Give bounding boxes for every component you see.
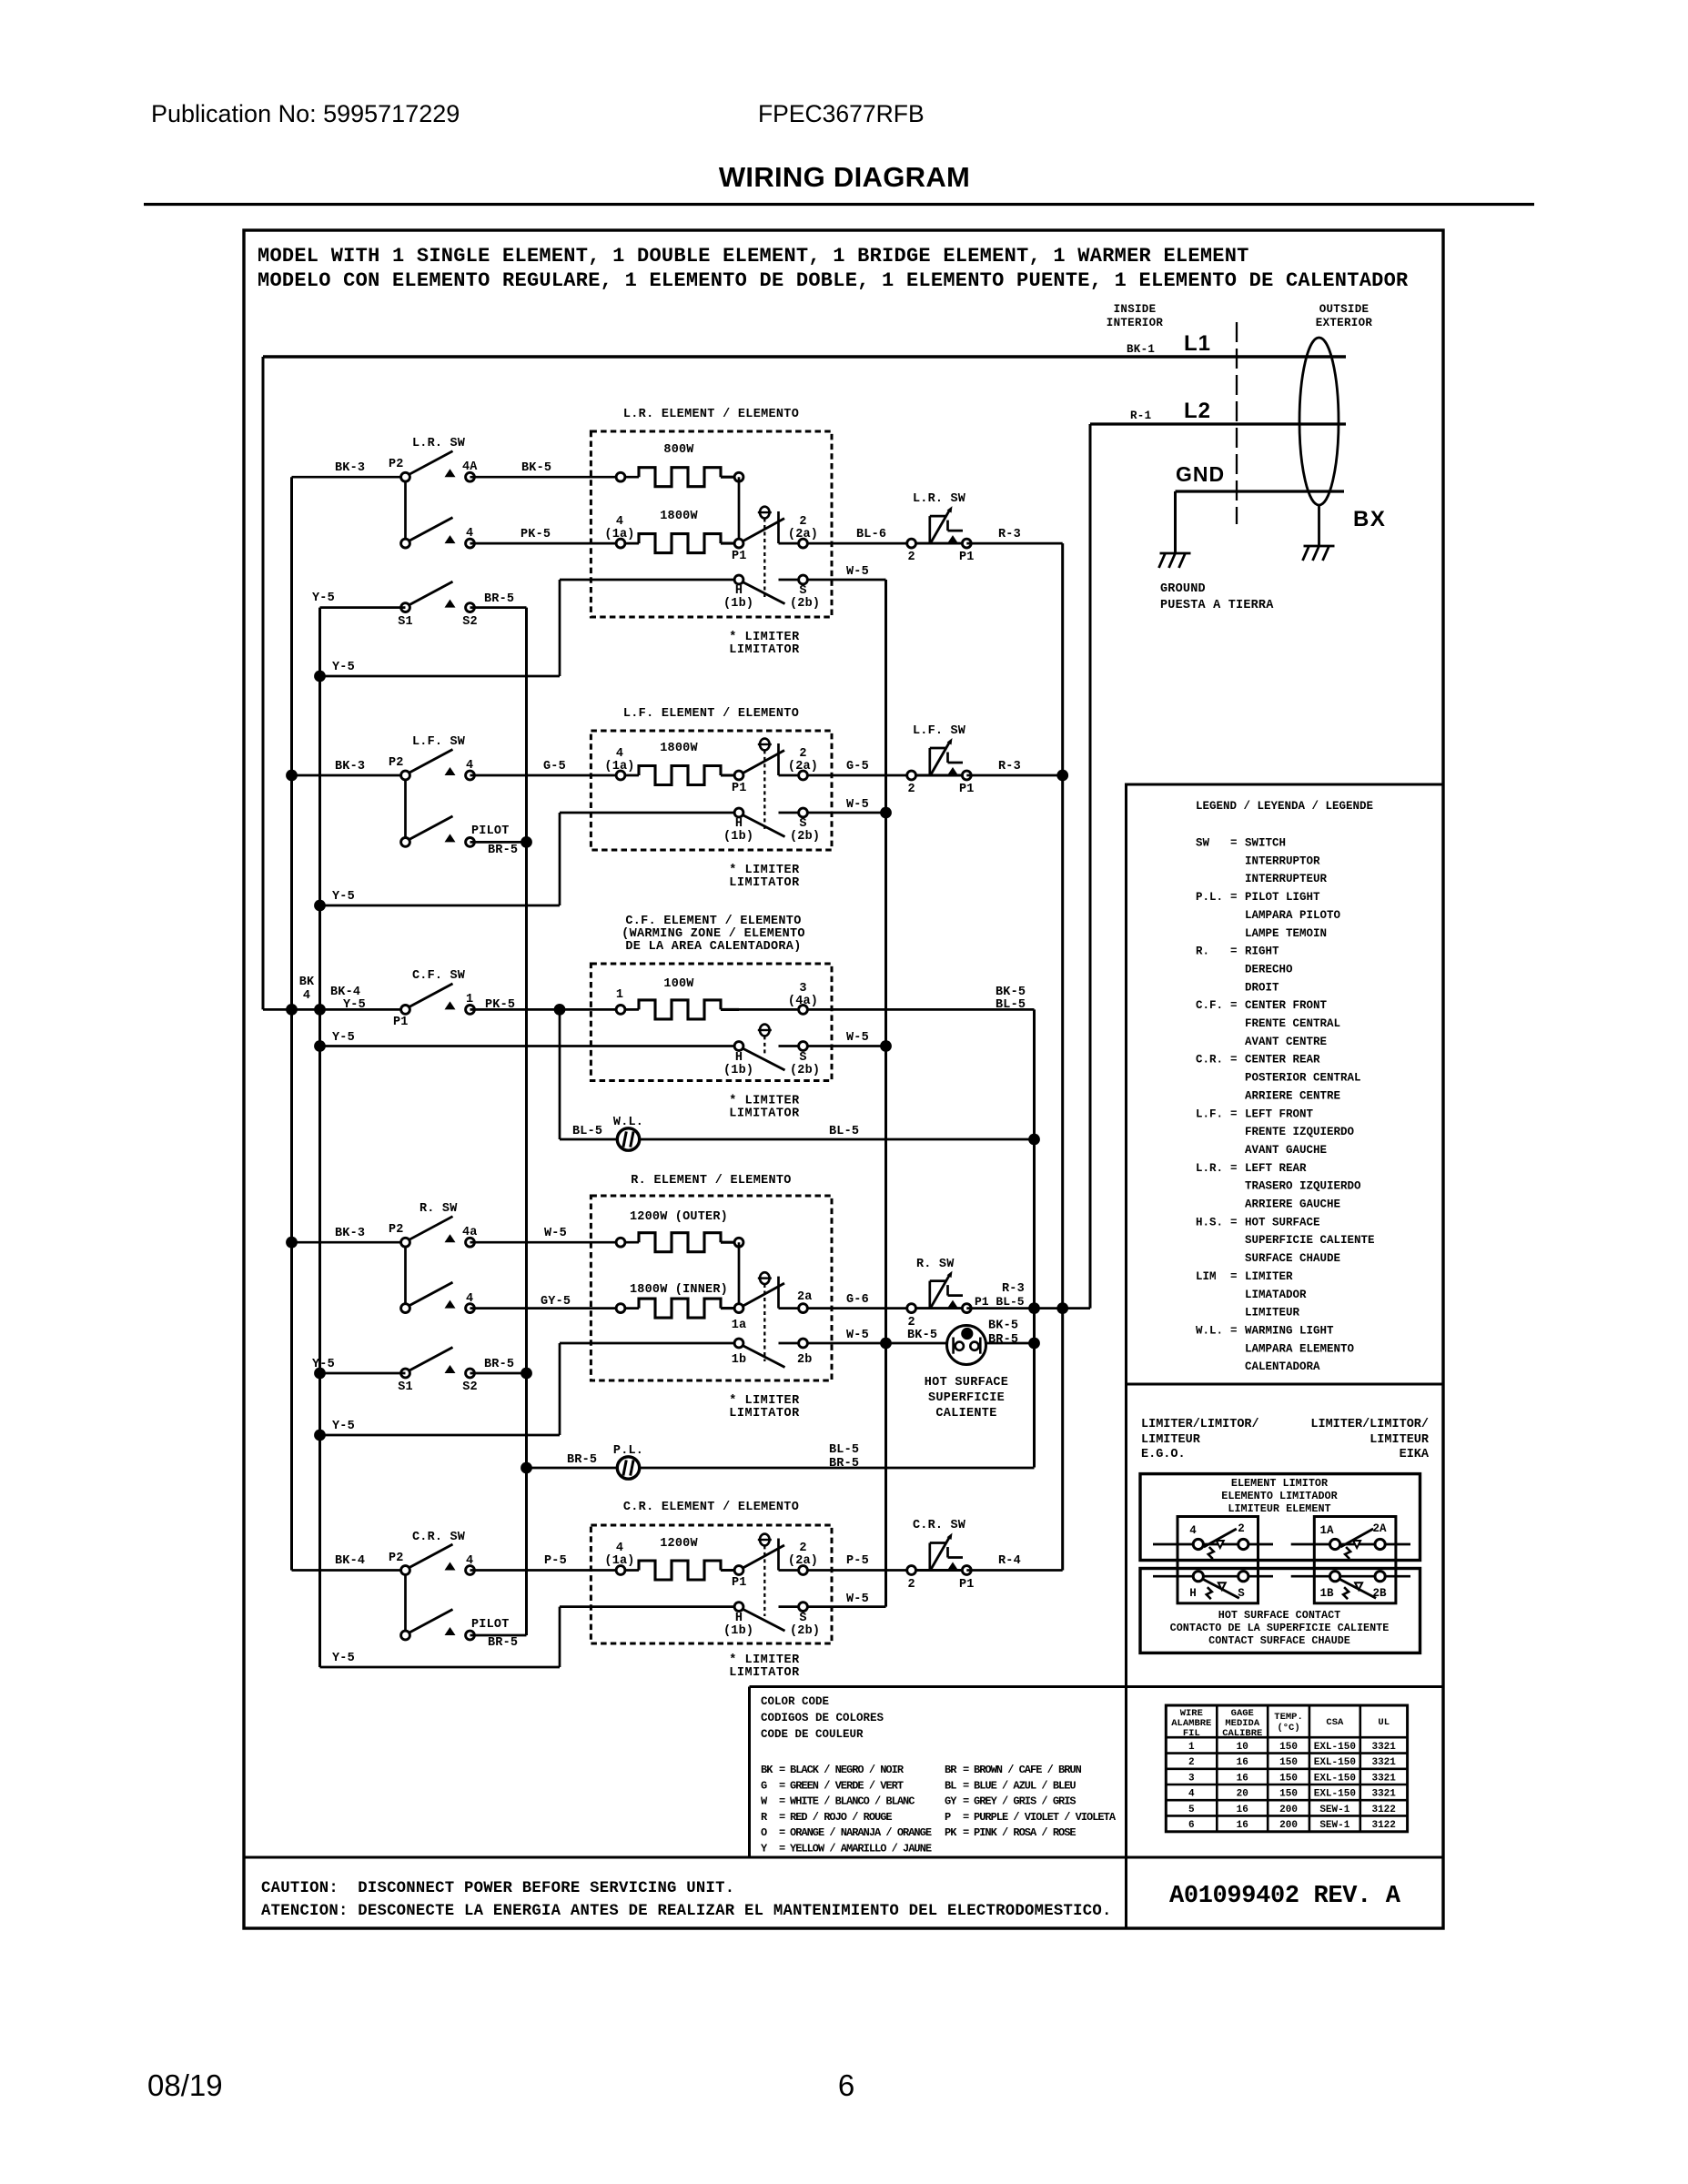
- label L.R. SW: [412, 437, 466, 450]
- terminal H (L.R.): [734, 575, 784, 603]
- label P1 BL-5 (R row): [975, 1295, 1025, 1309]
- svg-text:=: =: [1230, 1107, 1238, 1120]
- svg-text:2A: 2A: [1372, 1522, 1387, 1535]
- wire BK-3/BK-4 vertical bus: [290, 477, 293, 1570]
- wire Y-5 to H (C.F.): [320, 1045, 740, 1047]
- label S (C.R.): [799, 1612, 806, 1625]
- svg-text:L1: L1: [1184, 331, 1211, 356]
- label W-5 (R right): [846, 1329, 869, 1342]
- svg-text:800W: 800W: [663, 443, 694, 457]
- svg-text:100W: 100W: [663, 977, 694, 991]
- label H (1b) L.F.: [723, 817, 753, 844]
- svg-text:WHITE / BLANCO / BLANC: WHITE / BLANCO / BLANC: [790, 1795, 915, 1808]
- svg-text:BL-5: BL-5: [572, 1125, 602, 1138]
- svg-text:P.L.: P.L.: [613, 1444, 643, 1458]
- wire PK-5 (to C.F. element): [470, 1008, 640, 1011]
- terminal P1 (L.F.): [734, 751, 784, 780]
- svg-text:S: S: [799, 1051, 806, 1065]
- svg-text:E.G.O.: E.G.O.: [1141, 1448, 1186, 1461]
- svg-text:LIM: LIM: [1196, 1270, 1217, 1283]
- wire limiter row A left: [1153, 1543, 1273, 1546]
- label W.L.: [613, 1116, 643, 1129]
- svg-text:PK-5: PK-5: [485, 998, 515, 1012]
- svg-text:08/19: 08/19: [147, 2068, 223, 2102]
- svg-text:RED / ROJO / ROUGE: RED / ROJO / ROUGE: [790, 1811, 892, 1824]
- label P1 (L.F. element): [732, 782, 747, 795]
- svg-text:L.R. ELEMENT / ELEMENTO: L.R. ELEMENT / ELEMENTO: [623, 408, 799, 421]
- svg-text:TRASERO IZQUIERDO: TRASERO IZQUIERDO: [1245, 1180, 1361, 1193]
- svg-text:G-6: G-6: [846, 1293, 869, 1307]
- wire BR-5 vertical bus: [525, 608, 528, 1635]
- svg-text:P-5: P-5: [846, 1554, 869, 1568]
- label C.F. SW: [412, 969, 466, 983]
- svg-text:PK-5: PK-5: [521, 528, 551, 541]
- svg-text:Y-5: Y-5: [312, 1358, 335, 1371]
- label 1 (C.F. SW): [466, 993, 473, 1006]
- label PILOT (L.F.): [471, 824, 510, 838]
- label 1a (R): [732, 1319, 747, 1332]
- svg-text:LIMATADOR: LIMATADOR: [1245, 1289, 1307, 1301]
- switch PILOT (L.F.): [401, 816, 475, 846]
- svg-text:* LIMITER: * LIMITER: [729, 1653, 800, 1667]
- svg-text:CENTER REAR: CENTER REAR: [1245, 1054, 1320, 1067]
- resistor 800W (L.R. outer): [639, 468, 739, 487]
- wire PK-5 (to L.R. element): [470, 542, 640, 545]
- svg-text:BROWN / CAFE / BRUN: BROWN / CAFE / BRUN: [974, 1764, 1082, 1776]
- svg-text:SEW-1: SEW-1: [1319, 1820, 1349, 1831]
- svg-text:G: G: [761, 1779, 767, 1792]
- label S (L.F.): [799, 817, 806, 831]
- switch L.R. SW (surface unit, left): [401, 451, 475, 548]
- label 4 (L.R. SW): [466, 527, 473, 541]
- svg-text:1B: 1B: [1319, 1587, 1334, 1600]
- wire G-5 (to L.F. element): [470, 774, 640, 777]
- label GY-5 (R): [541, 1295, 571, 1309]
- label Y-5 (L.R. return): [332, 661, 355, 674]
- svg-text:(WARMING ZONE / ELEMENTO: (WARMING ZONE / ELEMENTO: [622, 927, 805, 941]
- wire limiter row B right: [1291, 1575, 1410, 1578]
- label 4A: [462, 460, 478, 474]
- label BK-5 (R hs left): [907, 1329, 937, 1342]
- terminal P1 (L.R.): [734, 519, 784, 548]
- switch L.F. SW (limiter, right): [907, 738, 972, 780]
- svg-text:=: =: [1230, 891, 1238, 904]
- junction R-3 (R row): [1056, 1302, 1068, 1314]
- node L2: [1184, 399, 1211, 423]
- junction Y-5 (L.F.): [314, 900, 326, 912]
- svg-text:Y-5: Y-5: [332, 1652, 355, 1665]
- service loop ellipse: [1299, 338, 1339, 505]
- terminal S (L.F.): [799, 808, 808, 817]
- label L.F. SW: [412, 735, 466, 749]
- label ELEMENT LIMITOR titles: [1221, 1477, 1338, 1515]
- svg-text:1800W: 1800W: [660, 742, 698, 755]
- element box R: [591, 1196, 832, 1380]
- svg-text:Y-5: Y-5: [312, 591, 335, 605]
- svg-text:BK: BK: [299, 976, 315, 989]
- terminal (L.R. 800W in): [616, 472, 625, 481]
- svg-text:LIMITEUR: LIMITEUR: [1245, 1307, 1300, 1319]
- svg-text:150: 150: [1279, 1757, 1298, 1768]
- svg-text:S: S: [799, 817, 806, 831]
- svg-text:MODEL WITH 1 SINGLE ELEMENT, 1: MODEL WITH 1 SINGLE ELEMENT, 1 DOUBLE EL…: [258, 245, 1249, 268]
- terminal 2a (C.R.): [799, 1566, 808, 1575]
- wire limiter row B left: [1153, 1575, 1273, 1578]
- svg-text:LIMITER/LIMITOR/: LIMITER/LIMITOR/: [1141, 1418, 1259, 1431]
- junction Y-5 (R return): [314, 1430, 326, 1441]
- label R-4: [998, 1554, 1021, 1568]
- label 100W: [663, 977, 694, 991]
- thermostat theta (R): [758, 1272, 772, 1361]
- label * LIMITER LIMITATOR (L.R.): [729, 631, 800, 657]
- svg-text:=: =: [963, 1779, 969, 1792]
- svg-text:GY-5: GY-5: [541, 1295, 571, 1309]
- label BK-5 BL-5 (C.F. out): [996, 986, 1026, 1012]
- label BL-5 (W.L. right): [829, 1125, 859, 1138]
- svg-text:LAMPARA ELEMENTO: LAMPARA ELEMENTO: [1245, 1342, 1355, 1355]
- wire R-3 (L.F. SW out): [966, 774, 1062, 777]
- svg-text:2: 2: [1238, 1522, 1245, 1535]
- svg-text:3321: 3321: [1371, 1789, 1396, 1800]
- switch R. SW (limiter, right): [907, 1271, 972, 1313]
- svg-text:S: S: [799, 584, 806, 598]
- label P2 (R. SW): [389, 1223, 404, 1237]
- svg-text:1A: 1A: [1319, 1524, 1334, 1537]
- label L.F. ELEMENT / ELEMENTO: [623, 707, 799, 721]
- terminal S (C.F.): [799, 1042, 808, 1051]
- label Y-5 (S1 L.R.): [312, 591, 335, 605]
- svg-text:AVANT CENTRE: AVANT CENTRE: [1245, 1036, 1327, 1048]
- element box C.F.: [591, 964, 832, 1081]
- right column divider: [1125, 784, 1127, 1928]
- svg-text:1: 1: [616, 988, 623, 1002]
- color code column 1: [761, 1764, 932, 1855]
- wire BK-4/Y-5 (C.F. feed): [263, 1008, 406, 1011]
- svg-text:Y-5: Y-5: [332, 1420, 355, 1433]
- svg-text:LIMITEUR ELEMENT: LIMITEUR ELEMENT: [1228, 1502, 1330, 1515]
- svg-text:C.R. SW: C.R. SW: [412, 1531, 466, 1544]
- title rule: [144, 203, 1534, 206]
- thermostat theta (L.F.): [758, 739, 772, 829]
- svg-text:150: 150: [1279, 1742, 1298, 1753]
- terminal P1 (C.R.): [734, 1545, 784, 1574]
- wire Y-5 vertical bus: [318, 608, 321, 1667]
- label COLOR CODE block: [761, 1695, 884, 1741]
- svg-text:LIMITER: LIMITER: [1245, 1270, 1293, 1283]
- label BR-5 (P.L. right): [829, 1457, 859, 1471]
- label S (C.F.): [799, 1051, 806, 1065]
- svg-text:BK-5: BK-5: [988, 1319, 1018, 1333]
- wire H jog vertical (R): [559, 1343, 561, 1435]
- label CAUTION line: [261, 1880, 734, 1897]
- svg-text:2: 2: [907, 551, 915, 564]
- wire limiter row A right: [1291, 1543, 1410, 1546]
- svg-text:4A: 4A: [462, 460, 478, 474]
- label 4 (1a) L.R.: [604, 515, 634, 541]
- svg-text:LIMITEUR: LIMITEUR: [1370, 1433, 1430, 1447]
- svg-text:LEGEND / LEYENDA / LEGENDE: LEGEND / LEYENDA / LEGENDE: [1196, 800, 1373, 813]
- svg-text:P1: P1: [393, 1016, 409, 1029]
- wire S to W-5 (L.R.): [779, 579, 886, 581]
- svg-text:LAMPE TEMOIN: LAMPE TEMOIN: [1245, 927, 1327, 940]
- junction R-3 (L.F.): [1056, 770, 1068, 782]
- svg-text:LAMPARA PILOTO: LAMPARA PILOTO: [1245, 909, 1341, 922]
- svg-text:4: 4: [466, 759, 473, 773]
- svg-text:BL-5: BL-5: [829, 1125, 859, 1138]
- svg-text:S2: S2: [462, 1380, 478, 1394]
- label L.R. SW (right): [913, 492, 966, 506]
- label BK-4 (C.F.): [330, 986, 360, 999]
- label G-5 (right): [846, 760, 869, 773]
- svg-text:GND: GND: [1176, 462, 1225, 486]
- limiter contact H-S: [1193, 1572, 1248, 1600]
- svg-text:WIRING DIAGRAM: WIRING DIAGRAM: [719, 161, 970, 193]
- switch R. SW (surface unit, left): [401, 1217, 475, 1313]
- label S1 (L.R.): [398, 615, 413, 629]
- label W-5 (C.R.): [846, 1592, 869, 1606]
- svg-text:EIKA: EIKA: [1400, 1448, 1430, 1461]
- label 2 (2a) L.F.: [788, 747, 818, 773]
- label H / S: [1189, 1587, 1245, 1600]
- wire Y-5 to S1 (R): [320, 1372, 406, 1375]
- wire H (1b) C.R.: [560, 1605, 739, 1608]
- wire 2a to R. SW: [779, 1307, 912, 1309]
- switch S1/S2 (L.R.): [401, 581, 475, 612]
- svg-text:C.R. SW: C.R. SW: [913, 1519, 966, 1532]
- svg-text:P2: P2: [389, 1223, 404, 1237]
- footer date 08/19: [147, 2068, 223, 2102]
- label BK-3 (L.F.): [335, 760, 365, 773]
- svg-text:(2b): (2b): [790, 1064, 820, 1077]
- svg-text:16: 16: [1237, 1757, 1248, 1768]
- wire C.F. element out: [721, 1008, 1035, 1011]
- svg-text:* LIMITER: * LIMITER: [729, 1095, 800, 1108]
- label ATENCION line: [261, 1903, 1112, 1920]
- label 3 (4a) C.F.: [788, 982, 818, 1008]
- svg-text:* LIMITER: * LIMITER: [729, 1394, 800, 1408]
- svg-text:2: 2: [907, 783, 915, 796]
- limiter contact bar (L.R.): [777, 511, 780, 543]
- junction W.L. tap: [554, 1004, 566, 1016]
- label L.F. SW (right): [913, 724, 966, 738]
- label W-5 (L.R.): [846, 565, 869, 579]
- label Y-5 (C.F. H row): [332, 1031, 355, 1045]
- svg-text:=: =: [779, 1795, 785, 1808]
- svg-text:1200W (OUTER): 1200W (OUTER): [630, 1210, 728, 1224]
- svg-text:HOT SURFACE: HOT SURFACE: [925, 1376, 1008, 1390]
- svg-text:BK-1: BK-1: [1127, 343, 1155, 356]
- svg-text:ORANGE / NARANJA / ORANGE: ORANGE / NARANJA / ORANGE: [790, 1826, 932, 1839]
- svg-text:1a: 1a: [732, 1319, 747, 1332]
- svg-text:W-5: W-5: [846, 1329, 869, 1342]
- svg-text:ARRIERE CENTRE: ARRIERE CENTRE: [1245, 1089, 1340, 1102]
- svg-text:MODELO CON ELEMENTO REGULARE,: MODELO CON ELEMENTO REGULARE, 1 ELEMENTO…: [258, 269, 1409, 292]
- svg-text:2: 2: [799, 1542, 806, 1555]
- svg-text:W-5: W-5: [846, 565, 869, 579]
- label * LIMITER LIMITATOR (R): [729, 1394, 800, 1421]
- wire H (1b) R: [560, 1342, 739, 1345]
- color code column 2: [945, 1764, 1117, 1839]
- svg-text:=: =: [1230, 1162, 1238, 1175]
- terminal 2a (R): [799, 1304, 808, 1313]
- label S (L.R.): [799, 584, 806, 598]
- wire BK-5 (to L.R. element): [470, 476, 640, 479]
- wire 2a to L.F. SW: [779, 774, 912, 777]
- svg-text:4: 4: [466, 527, 473, 541]
- svg-text:LIMITATOR: LIMITATOR: [729, 1107, 800, 1121]
- label H (1b) L.R.: [723, 584, 753, 611]
- svg-text:INTERIOR: INTERIOR: [1107, 317, 1164, 329]
- label P1 (L.F. right SW): [959, 783, 975, 796]
- label Y-5 (R return): [332, 1420, 355, 1433]
- svg-text:=: =: [1230, 837, 1238, 850]
- svg-text:W-5: W-5: [846, 1031, 869, 1045]
- label (2b) L.R.: [790, 597, 820, 611]
- svg-text:=: =: [779, 1779, 785, 1792]
- wire 2b/W-5 (R): [779, 1342, 1035, 1345]
- wire 2a to L.R. SW: [779, 542, 912, 545]
- legend box: [1127, 784, 1444, 1384]
- svg-text:HOT SURFACE CONTACT: HOT SURFACE CONTACT: [1218, 1609, 1341, 1622]
- terminal 1a (R): [734, 1283, 784, 1312]
- label BL-5 (P.L. right): [829, 1443, 859, 1457]
- svg-text:CSA: CSA: [1326, 1717, 1344, 1728]
- svg-text:6: 6: [838, 2068, 854, 2102]
- label P.L.: [613, 1444, 643, 1458]
- label (2b) C.R.: [790, 1624, 820, 1638]
- junction W-5 (R): [880, 1338, 892, 1350]
- wire R-3 (L.R. SW out): [966, 542, 1062, 545]
- thermostat theta (C.R.): [758, 1534, 772, 1616]
- svg-text:LEFT FRONT: LEFT FRONT: [1245, 1107, 1314, 1120]
- label 4a (R. SW): [462, 1226, 478, 1239]
- svg-text:CONTACT SURFACE CHAUDE: CONTACT SURFACE CHAUDE: [1208, 1634, 1350, 1647]
- svg-text:(2b): (2b): [790, 830, 820, 844]
- svg-text:Y-5: Y-5: [332, 661, 355, 674]
- svg-text:CALIENTE: CALIENTE: [935, 1407, 996, 1421]
- svg-text:=: =: [779, 1811, 785, 1824]
- hot surface contact box: [1140, 1569, 1420, 1653]
- wire W-5 vertical bus: [884, 580, 887, 1607]
- wire 2a to C.R. SW: [779, 1569, 912, 1572]
- resistor 1800W (L.F.): [639, 766, 739, 785]
- limiter contact bar (C.R.): [777, 1539, 780, 1571]
- label H (1b) C.F.: [723, 1051, 753, 1077]
- terminal H (C.F.): [734, 1042, 784, 1070]
- svg-text:FRENTE CENTRAL: FRENTE CENTRAL: [1245, 1017, 1340, 1030]
- svg-text:=: =: [779, 1843, 785, 1855]
- junction Y-5 bus (C.F.): [314, 1004, 326, 1016]
- label LIMITER/LIMITOR/LIMITEUR E.G.O.: [1141, 1418, 1259, 1461]
- terminal 1a (L.F.): [616, 771, 625, 780]
- svg-text:FIL: FIL: [1183, 1728, 1200, 1739]
- svg-text:CAUTION: DISCONNECT POWER BEF: CAUTION: DISCONNECT POWER BEFORE SERVICI…: [261, 1880, 734, 1897]
- label 2a (R): [797, 1290, 813, 1304]
- svg-text:=: =: [1230, 999, 1238, 1012]
- wire pilot to BR-5 bus (L.F.): [470, 841, 527, 844]
- label PK-5 (L.R.): [521, 528, 551, 541]
- svg-text:150: 150: [1279, 1773, 1298, 1784]
- label HOT SURFACE SUPERFICIE CALIENTE: [925, 1376, 1008, 1421]
- label LEGEND / LEYENDA / LEGENDE: [1196, 800, 1373, 813]
- svg-text:R. ELEMENT / ELEMENTO: R. ELEMENT / ELEMENTO: [631, 1174, 791, 1188]
- svg-text:P1 BL-5: P1 BL-5: [975, 1295, 1025, 1309]
- svg-text:1: 1: [466, 993, 473, 1006]
- label R-3 (L.F.): [998, 760, 1021, 773]
- svg-text:(1b): (1b): [723, 830, 753, 844]
- svg-text:C.F. ELEMENT / ELEMENTO: C.F. ELEMENT / ELEMENTO: [625, 915, 801, 928]
- svg-text:L.F.: L.F.: [1196, 1107, 1223, 1120]
- label * LIMITER LIMITATOR (C.F.): [729, 1095, 800, 1121]
- label Y-5 (C.R. return): [332, 1652, 355, 1665]
- wire H (1b) L.R.: [560, 579, 739, 581]
- limiter contact bar (R): [777, 1277, 780, 1309]
- label HOT SURFACE CONTACT titles: [1170, 1609, 1390, 1647]
- label 1200W (C.R.): [660, 1537, 698, 1551]
- wire S2 to BR-5 bus (R): [470, 1372, 527, 1375]
- label G-6: [846, 1293, 869, 1307]
- label BK-5 (R hs right): [988, 1319, 1018, 1333]
- svg-text:SWITCH: SWITCH: [1245, 837, 1286, 850]
- wire R-4 (C.R. SW out): [966, 1569, 1062, 1572]
- label C.R. SW: [412, 1531, 466, 1544]
- label 2 (2a) L.R.: [788, 515, 818, 541]
- label P1 (C.R. right SW): [959, 1578, 975, 1592]
- label P1 (C.R. element): [732, 1576, 747, 1590]
- wire W-5 (to R outer element): [470, 1241, 640, 1244]
- label INSIDE INTERIOR: [1107, 303, 1164, 329]
- terminal H (C.R.): [734, 1603, 784, 1631]
- terminal (R outer out): [734, 1238, 743, 1308]
- svg-text:L.R. SW: L.R. SW: [913, 492, 966, 506]
- junction BK-3 (R): [286, 1237, 298, 1249]
- svg-text:4: 4: [616, 515, 623, 529]
- svg-text:4: 4: [466, 1554, 473, 1568]
- svg-text:3321: 3321: [1371, 1742, 1396, 1753]
- svg-text:R-3: R-3: [998, 528, 1021, 541]
- svg-text:CALIBRE: CALIBRE: [1222, 1728, 1262, 1739]
- switch C.R. SW (limiter, right): [907, 1533, 972, 1575]
- svg-text:BR-5: BR-5: [988, 1333, 1018, 1347]
- junction BR-5 (P.L.): [521, 1462, 532, 1474]
- element box L.F.: [591, 731, 832, 850]
- svg-text:EXL-150: EXL-150: [1314, 1773, 1356, 1784]
- svg-text:BR-5: BR-5: [484, 1358, 514, 1371]
- svg-text:YELLOW / AMARILLO / JAUNE: YELLOW / AMARILLO / JAUNE: [790, 1843, 932, 1855]
- svg-text:P2: P2: [389, 458, 404, 471]
- terminal S (L.R.): [799, 575, 808, 584]
- svg-text:PILOT LIGHT: PILOT LIGHT: [1245, 891, 1320, 904]
- resistor 1800W INNER (R): [639, 1299, 739, 1318]
- resistor 1200W OUTER (R): [639, 1233, 739, 1252]
- svg-text:=: =: [1230, 1216, 1238, 1228]
- junction W-5 (L.F.): [880, 807, 892, 819]
- switch PILOT (C.R.): [401, 1610, 475, 1640]
- label R-3 (L.R.): [998, 528, 1021, 541]
- terminal H (L.F.): [734, 808, 784, 836]
- wire BL-5 through W.L.: [560, 1138, 1035, 1141]
- label P-5 (C.R.): [544, 1554, 567, 1568]
- label R. ELEMENT / ELEMENTO: [631, 1174, 791, 1188]
- svg-text:P1: P1: [732, 782, 747, 795]
- label W-5 (C.F.): [846, 1031, 869, 1045]
- hot surface indicator H.S.: [947, 1326, 986, 1365]
- terminal 3/4a (C.F.): [799, 1006, 808, 1015]
- svg-text:BR-5: BR-5: [488, 1636, 518, 1650]
- terminal 1b (R): [734, 1339, 784, 1367]
- svg-text:LIMITER/LIMITOR/: LIMITER/LIMITOR/: [1310, 1418, 1429, 1431]
- inside/outside boundary dashed line: [1236, 322, 1238, 524]
